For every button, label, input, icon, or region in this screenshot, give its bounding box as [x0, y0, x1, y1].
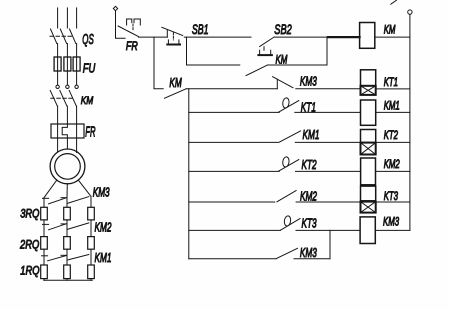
wire M lead 2 [66, 138, 68, 149]
wire L2 FU-KM [66, 71, 68, 85]
wire row5 left [189, 141, 278, 143]
wire bottom bus [44, 279, 93, 281]
resistor 3RQ c [88, 207, 95, 220]
wire row1 thick to coil [328, 36, 360, 38]
svg-text:KM: KM [81, 95, 94, 107]
svg-text:KM2: KM2 [384, 159, 400, 172]
wire row8 coil-rail [375, 229, 410, 231]
wire col3 seg4 [90, 249, 92, 265]
coil KT3 [361, 186, 376, 213]
contact KM3 resistor shorting [43, 197, 89, 204]
wire row5 right [295, 141, 360, 143]
wire M lead 1 [57, 138, 59, 152]
disconnect switch QS [50, 29, 76, 44]
svg-text:KM3: KM3 [93, 186, 110, 200]
thermal relay FR heater box [51, 124, 84, 138]
svg-text:KM1: KM1 [303, 128, 320, 142]
motor M [50, 149, 85, 184]
wire left drop rail [188, 89, 190, 259]
wire row8 right [296, 229, 360, 231]
contact KT2 delayed [279, 156, 299, 171]
resistor 2RQ c [88, 237, 95, 250]
contact KM2 NO [277, 191, 296, 202]
wire col2 seg5 [66, 255, 68, 265]
wire row6 right [296, 170, 361, 172]
resistor 3RQ a [41, 207, 48, 220]
wire row4 right [295, 111, 361, 113]
svg-text:KT2: KT2 [302, 158, 317, 172]
wire row5 coil-rail [376, 141, 410, 143]
contact KT3 delayed [281, 215, 301, 230]
wire L2 QS-FU [66, 44, 68, 58]
svg-text:KM: KM [169, 76, 182, 90]
contactor KM main contacts [50, 85, 78, 106]
wire row9 right [294, 258, 330, 260]
resistor 1RQ c [88, 265, 95, 279]
resistor 3RQ b [64, 207, 71, 220]
wire rotor fan right [78, 180, 91, 196]
wire col1 seg5 [43, 256, 45, 265]
pushbutton SB1 NC [162, 27, 183, 44]
wire col1 seg4 [43, 249, 45, 256]
wire L3 FU-KM [76, 71, 78, 85]
wire row2 left [187, 64, 240, 66]
coil KM3 [360, 217, 375, 244]
wire row4 left [189, 111, 279, 113]
wire row2 right [267, 64, 327, 66]
wire row1 SB2-KM [275, 36, 328, 38]
wire row3 right [296, 88, 361, 90]
wire col3 seg1 [90, 196, 92, 207]
contact KM3 NO row9 [277, 248, 298, 258]
wire phase L3 [76, 8, 78, 28]
svg-text:KM3: KM3 [300, 75, 317, 89]
wire row2 riser [326, 37, 328, 65]
wire row9 riser [329, 230, 331, 258]
resistor 1RQ a [41, 265, 48, 279]
wire L1 FU-KM [57, 71, 59, 85]
wire L3 QS-FU [76, 44, 78, 58]
wire L1 KM-FR [57, 106, 59, 124]
wire row4 coil-rail [376, 111, 410, 113]
wire col2 seg2 [66, 220, 68, 224]
wire col1 seg6 [43, 279, 45, 281]
svg-text:SB2: SB2 [274, 21, 292, 38]
svg-text:KT1: KT1 [384, 77, 398, 90]
coil KM2 [361, 158, 376, 185]
svg-text:3RQ: 3RQ [20, 207, 40, 220]
wire col2 seg6 [66, 279, 68, 281]
svg-text:FU: FU [83, 62, 96, 76]
svg-text:KM2: KM2 [95, 221, 112, 235]
fuse FU 3 [73, 57, 80, 71]
wire col3 seg6 [90, 279, 92, 281]
wire L1 QS-FU [57, 44, 59, 58]
svg-text:FR: FR [126, 40, 138, 54]
svg-text:SB1: SB1 [192, 22, 209, 38]
wire rotor fan mid [66, 184, 68, 198]
wire M lead 3 [76, 138, 78, 153]
thermal contact FR blade [118, 26, 138, 37]
svg-text:KM3: KM3 [383, 216, 399, 229]
wire col3 seg2 [90, 220, 92, 237]
svg-text:KM: KM [384, 24, 396, 37]
wire col1 seg2 [43, 220, 45, 225]
thermal contact FR lead [116, 11, 126, 39]
contact KM3 NC row3 [273, 77, 293, 89]
wire L2 KM-FR [66, 106, 68, 124]
contact KM self-hold [246, 65, 267, 76]
wire col1 seg1 [43, 198, 45, 207]
wire row1 coil-rail [375, 36, 410, 38]
wire phase L2 [66, 8, 68, 28]
contact KT1 delayed [279, 97, 299, 112]
svg-text:KM1: KM1 [384, 100, 400, 113]
wire L3 KM-FR [76, 106, 78, 124]
wire row3 mid [186, 88, 277, 90]
contact KM1 NO [279, 131, 300, 142]
wire row8 left [189, 229, 280, 231]
contact KM NO row3 [165, 89, 187, 98]
wire col2 seg1 [66, 198, 68, 208]
coil KM1 [361, 100, 376, 125]
svg-text:FR: FR [85, 124, 96, 140]
wire phase L1 [57, 8, 59, 28]
wire left rail [154, 37, 163, 89]
wire row9 left [189, 258, 276, 260]
wire col2 seg3 [66, 224, 68, 237]
resistor 2RQ b [64, 237, 71, 250]
pushbutton SB2 NO [258, 37, 274, 55]
wire row6 coil-rail [376, 170, 410, 172]
svg-text:KT3: KT3 [302, 217, 317, 231]
svg-text:QS: QS [82, 32, 94, 48]
fuse FU 2 [64, 57, 71, 71]
svg-text:KT1: KT1 [301, 101, 316, 115]
svg-text:KT2: KT2 [384, 129, 399, 142]
wire right rail [409, 14, 411, 230]
wire col2 seg4 [66, 249, 68, 255]
terminal slash [391, 0, 397, 4]
wire row3 coil-rail [376, 88, 410, 90]
coil KT1 [361, 70, 376, 95]
terminal circle [408, 10, 412, 14]
wire row7 left [189, 201, 275, 203]
wire row1 FR-SB1 [139, 36, 168, 38]
terminal diamond [113, 6, 117, 10]
contact KM1 resistor shorting [42, 255, 89, 261]
svg-text:1RQ: 1RQ [20, 265, 40, 278]
wire row1 SB1-SB2 [184, 36, 251, 38]
resistor 1RQ b [64, 265, 71, 279]
thermal contact FR paddle [127, 19, 141, 31]
wire row7 coil-rail [376, 201, 410, 203]
svg-text:2RQ: 2RQ [19, 238, 40, 251]
wire row7 right [296, 201, 360, 203]
wire rotor fan left [44, 180, 57, 198]
wire col1 seg3 [43, 224, 45, 236]
resistor 2RQ a [41, 237, 48, 250]
coil KT2 [361, 130, 376, 155]
wire row6 left [189, 170, 279, 172]
svg-text:KM1: KM1 [95, 251, 112, 265]
fuse FU 1 [54, 57, 61, 71]
coil KM [360, 23, 375, 49]
contact KM2 resistor shorting [43, 223, 89, 230]
wire row2 drop [186, 37, 188, 65]
